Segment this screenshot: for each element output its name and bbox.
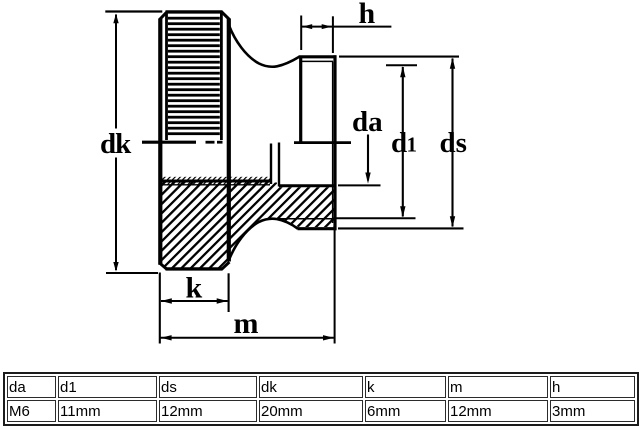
dim k arrow right <box>217 298 228 303</box>
dim dk line lower <box>115 158 117 271</box>
knurl box left edge <box>165 12 168 140</box>
boss bottom edge <box>298 227 337 230</box>
dim da extension <box>338 184 381 186</box>
head top-right chamfer <box>222 12 230 20</box>
bore line threaded <box>159 180 271 183</box>
centerline dash 1 <box>142 141 196 144</box>
dim dk bottom extension <box>106 272 158 274</box>
spec table <box>3 372 639 426</box>
bore line right <box>279 184 336 187</box>
svg-text:h: h <box>359 0 376 30</box>
dim k left extension <box>159 273 161 344</box>
dim h left extension <box>300 16 302 51</box>
thread runout step line 2 <box>278 143 280 187</box>
dim h line <box>301 26 391 28</box>
dim h right extension <box>332 16 334 53</box>
dim m line <box>161 337 334 339</box>
boss right face <box>333 55 336 230</box>
boss d1 line bottom <box>278 218 333 220</box>
dim d1 arrow up <box>400 66 405 77</box>
centerline dash 2 <box>206 141 215 144</box>
dim h arrow left <box>302 24 312 29</box>
svg-text:ds: ds <box>440 127 467 159</box>
head left face <box>158 19 162 265</box>
boss left edge <box>299 57 302 144</box>
boss face chamfer line <box>332 61 334 223</box>
svg-text:dk: dk <box>100 128 132 160</box>
dim dk arrow down <box>113 262 118 272</box>
neck fillet curve bottom <box>229 219 298 261</box>
svg-text:m: m <box>234 307 259 340</box>
dim dk arrow up <box>113 14 118 24</box>
head bottom edge <box>166 267 223 270</box>
head bottom-right chamfer <box>222 262 230 269</box>
thread runout step line 1 <box>270 144 272 185</box>
thread major line <box>159 184 271 186</box>
dim ds arrow down <box>450 216 455 227</box>
head right face <box>227 19 231 262</box>
dim d1 arrow down <box>400 206 405 217</box>
svg-text:1: 1 <box>407 133 418 157</box>
head top edge <box>166 10 223 13</box>
dim dk line upper <box>115 15 117 129</box>
dim k arrow left <box>161 298 172 303</box>
dim ds top extension <box>339 56 459 58</box>
dim k right extension <box>228 273 230 312</box>
dim da arrow <box>365 173 370 184</box>
boss top edge <box>299 55 337 58</box>
boss d1 line top <box>302 60 334 62</box>
dim da line <box>367 135 369 181</box>
dim ds arrow up <box>450 58 455 69</box>
dim m arrow left <box>161 335 172 340</box>
dim dk top extension <box>105 10 162 12</box>
knurl box right edge <box>220 12 223 140</box>
head bottom-left chamfer <box>160 263 167 269</box>
centerline dash 4 <box>294 141 351 144</box>
svg-text:k: k <box>186 272 203 305</box>
knurl stripes <box>168 17 220 135</box>
svg-text:d: d <box>391 127 407 159</box>
dim h arrow right <box>322 24 332 29</box>
dim m arrow right <box>323 335 334 340</box>
dim ds bottom extension <box>338 227 464 229</box>
dim d1 line <box>402 67 404 217</box>
dim d1 top extension <box>386 64 417 66</box>
dim d1 bottom extension <box>336 217 416 219</box>
dim k line <box>161 300 228 302</box>
section hatch <box>159 183 336 269</box>
dim m right extension <box>334 230 336 344</box>
thread tick band <box>159 177 270 185</box>
centerline dash 3 <box>217 141 223 144</box>
dim ds line <box>451 59 453 227</box>
svg-text:da: da <box>352 106 383 138</box>
neck fillet curve top <box>229 25 299 67</box>
head top-left chamfer <box>160 12 167 20</box>
